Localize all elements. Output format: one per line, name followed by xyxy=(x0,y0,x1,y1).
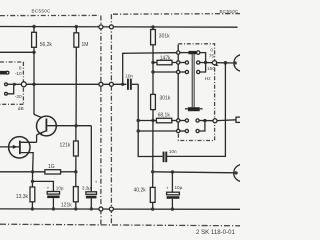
node: x=138 row 120.5 xyxy=(137,119,140,122)
svg-text:Hz: Hz xyxy=(205,76,211,82)
wire: -10dB contact to wiper node xyxy=(7,83,14,85)
capacitor 10u (electrolytic, left) xyxy=(47,185,64,209)
contact circle row3 right xyxy=(197,70,200,73)
pin circle row1 xyxy=(177,51,180,54)
wire: row-1 corner (x=122.7 up, right to switch pin) xyxy=(123,53,177,85)
svg-text:150: 150 xyxy=(207,66,215,72)
wire: pin row2 to contact xyxy=(180,62,185,64)
contact circle row4 left xyxy=(185,119,188,122)
svg-text:dB: dB xyxy=(18,106,24,112)
wire: lower output line to bottom-right connector xyxy=(153,172,236,173)
contact circle row1 right xyxy=(197,51,200,54)
wire: bus to wiper xyxy=(200,62,213,64)
node: 10u right to rail xyxy=(171,207,174,210)
svg-text:301k: 301k xyxy=(159,34,170,40)
wiper arrow xyxy=(216,63,219,66)
wire: wiper to main vertical xyxy=(26,83,34,85)
node: 147k junction on x=153 xyxy=(151,61,154,64)
feedthrough pin ground screen2 xyxy=(109,207,113,211)
node: 13,3k to rail xyxy=(31,207,34,210)
feedthrough pin top rail screen2 xyxy=(109,25,113,29)
resistor 56,2k xyxy=(32,27,53,53)
pin circle row3 xyxy=(177,70,180,73)
svg-text:+: + xyxy=(166,185,169,190)
transistor Q1 (FET input) xyxy=(0,137,30,158)
ground rail xyxy=(0,208,240,210)
node: base/1M/121k junction xyxy=(74,124,77,127)
node: wiper line joins attenuator vertical xyxy=(32,83,35,86)
node: wire meets connector xyxy=(234,61,237,64)
screen boundary top-left (dash-dot) xyxy=(0,14,99,16)
contact circle row2 right xyxy=(197,61,200,64)
resistor 1G xyxy=(45,164,76,174)
switch pin bus x=178 xyxy=(177,45,179,134)
wire: 1M bottom down to base node xyxy=(75,47,77,126)
node: 301k chain top on rail xyxy=(151,25,154,28)
pin circle row2 xyxy=(177,61,180,64)
resistor (filled) position 0 bridging xyxy=(180,51,197,54)
resistor 13,3k xyxy=(16,187,35,209)
wire: chain x=153 down to 40,2k xyxy=(152,110,154,188)
node: 1M top on rail xyxy=(75,25,78,28)
wiper pin circle (wafer B) xyxy=(213,119,217,123)
resistor 68,1k xyxy=(156,112,176,122)
svg-text:0: 0 xyxy=(210,47,213,53)
svg-text:+: + xyxy=(95,180,98,185)
wire: pin row5 to contact xyxy=(180,130,185,132)
wire: drain lead to emitter of Q2 xyxy=(21,141,37,143)
feedthrough pin (screen 2, signal) xyxy=(109,82,113,86)
node: contacts join xyxy=(13,83,16,86)
node: row72 junction on x=153 xyxy=(151,70,154,73)
wire: row 120.5 from x=138 xyxy=(138,120,156,122)
svg-text:1M: 1M xyxy=(82,42,89,48)
contact pin 0dB xyxy=(6,71,9,74)
wire: row72 to pin xyxy=(153,71,176,73)
rotary switch mechanical linkage (dash-dot) xyxy=(178,44,214,141)
svg-text:3,3µ: 3,3µ xyxy=(82,186,91,191)
wire: vertical x=138 (filter bus) xyxy=(138,84,153,156)
wire: row 131 from x=138 to pin xyxy=(138,130,176,132)
svg-text:1G: 1G xyxy=(48,164,55,170)
wire: wafer B wiper output to right edge xyxy=(217,119,236,122)
screen wall vertical left (dash-dot) xyxy=(100,16,102,225)
pin circle row4 xyxy=(177,119,180,122)
node: bus2 join xyxy=(203,119,206,122)
contact circle row5 left xyxy=(185,129,188,132)
svg-text:68,1k: 68,1k xyxy=(158,112,171,118)
contact circle row5 right xyxy=(196,129,199,132)
capacitor leads (twin vertical wires to filter cap) xyxy=(191,54,193,107)
wire: branch to 10u cap xyxy=(33,181,54,191)
svg-text:-10: -10 xyxy=(15,71,22,77)
svg-text:121k: 121k xyxy=(61,202,72,208)
wire: collector diagonal into BJT xyxy=(34,114,46,119)
screen wall vertical right (dash-dot) xyxy=(110,14,112,225)
wire: BJT base lead to right xyxy=(47,125,91,127)
node: output branch xyxy=(224,61,228,65)
filter capacitor (filled body) xyxy=(185,107,203,111)
node: x=138 row 131 xyxy=(137,129,140,132)
wire: -20dB contact corner up xyxy=(7,84,13,94)
wire: chain x=153 between 301k resistors xyxy=(152,45,154,95)
contact pin -20dB xyxy=(5,92,8,95)
node: input/56,2k bottom junction xyxy=(32,51,35,54)
contact circle row4 right xyxy=(196,119,199,122)
screen boundary bottom (dash-dot) xyxy=(0,224,240,226)
svg-text:10n: 10n xyxy=(125,74,133,79)
capacitor 10n (second) xyxy=(153,149,177,162)
capacitor 3,3u (electrolytic) xyxy=(82,180,98,209)
feedthrough pin (screen 1, signal) xyxy=(99,82,103,86)
resistor 40,2k xyxy=(134,187,156,202)
wire: contact row3 corner up to bus xyxy=(200,63,206,73)
wire: pin row3 to contact xyxy=(180,71,185,73)
resistor 301k (upper) xyxy=(151,27,171,45)
resistor stub at right edge (cut off) xyxy=(236,117,241,122)
wire: 1G row from left edge xyxy=(0,171,45,173)
wire: attenuator vertical down to BJT collector xyxy=(33,52,35,114)
capacitor 10u (electrolytic, right) xyxy=(166,172,183,209)
node: 10u branch left xyxy=(31,180,34,183)
node: 3,3u to rail xyxy=(90,207,93,210)
svg-text:121k: 121k xyxy=(60,142,71,148)
switch wiper circle xyxy=(21,82,26,87)
feedthrough pin ground screen1 xyxy=(99,207,103,211)
node: 40,2k to rail xyxy=(151,207,154,210)
transistor Q2 BC550C (bipolar) xyxy=(37,116,57,142)
resistor 1M xyxy=(74,27,89,48)
wire: source lead xyxy=(21,152,33,154)
wire: wiper output to top-right connector xyxy=(217,62,236,64)
node: wire meets connector xyxy=(234,171,237,174)
wire: base network corner down to 3,3u xyxy=(90,126,92,192)
node: 68,1k junction x=153 xyxy=(151,119,154,122)
svg-text:56,2k: 56,2k xyxy=(40,42,53,48)
svg-text:BC550C: BC550C xyxy=(32,9,52,14)
resistor (filled, cut at left edge) feeding 0dB contact xyxy=(0,71,6,75)
wire: 40,2k bottom to ground rail xyxy=(152,202,154,209)
rotary wiper circle (0/75/150Hz) xyxy=(212,61,216,65)
node: 56,2k top on rail xyxy=(32,25,35,28)
node: right bus join xyxy=(204,61,207,64)
svg-text:10n: 10n xyxy=(169,149,177,154)
svg-text:BC550C: BC550C xyxy=(220,9,240,14)
contact circle row3 left xyxy=(185,70,188,73)
svg-text:75: 75 xyxy=(209,53,215,59)
wire: source down to 1G row xyxy=(32,153,35,172)
wire: node to wiper xyxy=(14,83,21,85)
contact pin -10dB xyxy=(5,83,8,86)
svg-text:10µ: 10µ xyxy=(56,185,64,190)
wire: x=32.6 down to 13,3k xyxy=(31,172,33,187)
svg-text:2 SK 118-0-01: 2 SK 118-0-01 xyxy=(196,229,235,236)
wire: bus2 to wiper pin xyxy=(199,120,213,122)
svg-text:0: 0 xyxy=(19,66,22,72)
wire: contact row1 corner down to bus xyxy=(200,53,206,63)
wire: main signal line y=84.3 to 10n xyxy=(26,83,126,85)
node: 10n / row-1 branch xyxy=(121,83,124,86)
node: 10u left to rail xyxy=(52,207,55,210)
node: 1G meets 121k chain xyxy=(74,170,77,173)
node: start of lower output line xyxy=(151,170,154,173)
resistor 301k (lower) xyxy=(151,94,171,109)
resistor 147k xyxy=(153,55,176,64)
attenuator switch box (dash-dot) xyxy=(0,62,23,104)
connector circle top right (cut by edge) xyxy=(234,55,251,72)
pin circle row5 xyxy=(177,129,180,132)
screen boundary top-right (dash-dot) xyxy=(113,13,240,16)
svg-text:-20: -20 xyxy=(15,94,22,100)
connector circle bottom right (cut by edge) xyxy=(234,164,251,181)
wire: pin row4 to contact xyxy=(180,120,185,122)
node: 121k lower to rail xyxy=(74,207,77,210)
contact circle row2 left xyxy=(185,61,188,64)
svg-text:13,3k: 13,3k xyxy=(16,194,29,200)
svg-text:40,2k: 40,2k xyxy=(134,187,147,193)
svg-text:301k: 301k xyxy=(160,96,171,102)
wire: row5 corner up to bus2 xyxy=(199,121,205,131)
svg-text:+: + xyxy=(47,185,50,190)
node: source joins 1G row xyxy=(31,170,34,173)
svg-text:147k: 147k xyxy=(160,55,171,61)
resistor 121k (lower) xyxy=(61,172,78,209)
node: 10u branch xyxy=(171,170,174,173)
wire: top signal rail xyxy=(0,26,238,29)
resistor 121k (upper) xyxy=(60,126,79,172)
capacitor 10n (input coupling) xyxy=(125,74,138,90)
wire: output down right side xyxy=(167,63,225,157)
svg-text:10µ: 10µ xyxy=(175,185,183,190)
feedthrough pin top rail screen1 xyxy=(99,25,103,29)
wire: input line from left edge xyxy=(0,51,34,53)
